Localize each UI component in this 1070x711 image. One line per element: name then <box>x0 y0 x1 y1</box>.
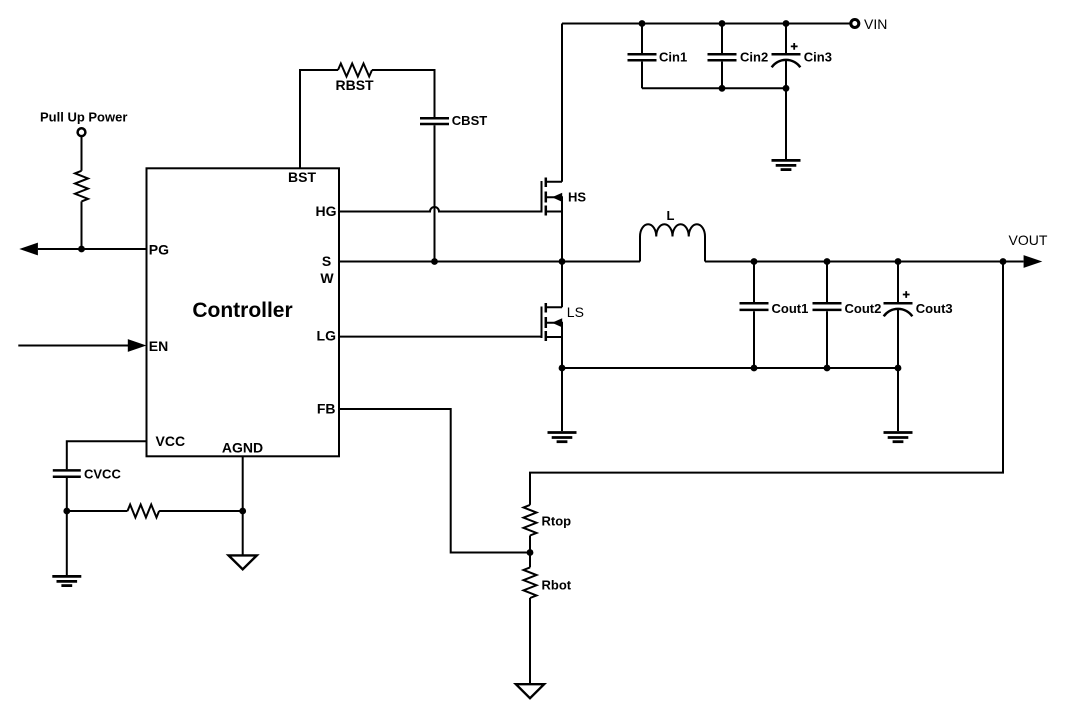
terminal pull-up power <box>78 128 86 136</box>
wire Cin bottom rail <box>642 87 786 89</box>
wire VCC <box>67 441 147 469</box>
svg-text:Cout2: Cout2 <box>845 301 882 316</box>
junction AGND <box>239 508 246 515</box>
inductor L <box>640 208 705 262</box>
junction CVCC <box>63 508 70 515</box>
svg-text:S: S <box>322 253 331 269</box>
terminal VIN <box>851 16 888 32</box>
ground Rbot triangle <box>516 684 544 698</box>
resistor VCC-AGND <box>128 505 160 518</box>
svg-text:Cout1: Cout1 <box>772 301 809 316</box>
wire Cout3 to ground <box>897 368 899 431</box>
wire node to resistor <box>67 510 128 512</box>
VOUT arrow <box>1024 255 1043 268</box>
svg-text:Pull Up Power: Pull Up Power <box>40 110 127 125</box>
wire terminal to pull-up resistor <box>81 136 83 171</box>
junction Cin rail Cin2 <box>719 85 726 92</box>
svg-text:CVCC: CVCC <box>84 466 121 481</box>
capacitor Cout3 polarized <box>884 262 953 369</box>
capacitor Cin3 polarized <box>772 24 832 89</box>
junction VIN Cin1 <box>639 20 646 27</box>
ground AGND triangle <box>229 555 257 569</box>
svg-text:LG: LG <box>317 328 337 344</box>
svg-text:L: L <box>667 208 675 223</box>
resistor Rtop <box>524 505 572 536</box>
svg-text:Cout3: Cout3 <box>916 301 953 316</box>
ground below LS <box>548 433 577 442</box>
junction Cout rail Cout1 <box>751 365 758 372</box>
wire AGND node to ground <box>242 511 244 555</box>
svg-text:EN: EN <box>149 338 168 354</box>
capacitor CBST <box>420 113 487 128</box>
ground below CVCC <box>52 576 81 585</box>
svg-text:CBST: CBST <box>452 113 487 128</box>
ground below Cin3 <box>772 160 801 169</box>
wire CVCC node to ground <box>66 511 68 575</box>
EN arrow <box>128 339 147 352</box>
wire CVCC to resistor node <box>66 478 68 511</box>
junction VIN Cin2 <box>719 20 726 27</box>
svg-text:Controller: Controller <box>192 299 292 322</box>
svg-text:HS: HS <box>568 189 586 204</box>
wire AGND pin <box>242 456 244 511</box>
wire PG <box>38 248 147 250</box>
wire S/W rail <box>339 261 640 263</box>
junction PG pull-up <box>78 246 85 253</box>
wire LG <box>339 336 542 338</box>
capacitor CVCC <box>53 466 122 481</box>
svg-text:Cin3: Cin3 <box>804 50 832 65</box>
svg-text:RBST: RBST <box>336 77 375 93</box>
svg-text:PG: PG <box>149 241 169 257</box>
svg-text:Rbot: Rbot <box>542 578 572 593</box>
controller U1 box <box>147 168 340 456</box>
resistor pull-up <box>75 171 88 202</box>
wire Rbot to ground <box>529 598 531 683</box>
wire LS source to ground <box>561 368 563 431</box>
junction VOUT feedback <box>1000 258 1007 265</box>
svg-text:AGND: AGND <box>222 439 263 455</box>
junction VOUT Cout2 <box>824 258 831 265</box>
junction VIN Cin3 <box>783 20 790 27</box>
junction S-CBST <box>431 258 438 265</box>
wire Cout bottom rail <box>562 367 898 369</box>
junction Cout rail Cout3 <box>895 365 902 372</box>
junction VOUT Cout3 <box>895 258 902 265</box>
wire CBST to S node <box>434 125 436 260</box>
wire Rtop to node <box>529 536 531 553</box>
wire resistor to AGND node <box>159 510 243 512</box>
svg-text:VOUT: VOUT <box>1009 232 1048 248</box>
svg-text:Rtop: Rtop <box>542 514 572 529</box>
svg-text:HG: HG <box>316 203 337 219</box>
svg-text:FB: FB <box>317 400 336 416</box>
svg-text:Cin2: Cin2 <box>740 50 768 65</box>
junction Cin rail Cin3 <box>783 85 790 92</box>
wire VIN rail <box>562 23 851 25</box>
transistor LS <box>542 262 584 369</box>
wire HG with hop over CBST wire <box>339 207 542 212</box>
wire VOUT to Rtop <box>530 262 1003 505</box>
PG arrow <box>19 243 38 256</box>
svg-text:Cin1: Cin1 <box>659 50 687 65</box>
wire RBST to CBST <box>372 70 435 117</box>
junction Cout rail Cout2 <box>824 365 831 372</box>
svg-text:VIN: VIN <box>864 16 887 32</box>
wire BST to RBST <box>300 70 338 168</box>
wire Cin3 to ground <box>785 88 787 159</box>
svg-text:W: W <box>320 270 334 286</box>
junction Cout rail LS <box>559 365 566 372</box>
transistor HS <box>542 24 587 262</box>
wire node to Rbot <box>529 553 531 568</box>
resistor RBST <box>336 64 375 93</box>
wire VOUT rail <box>705 261 1024 263</box>
svg-text:VCC: VCC <box>156 433 186 449</box>
capacitor Cout2 <box>813 262 882 369</box>
resistor Rbot <box>524 567 572 598</box>
svg-text:BST: BST <box>288 169 316 185</box>
capacitor Cin1 <box>628 24 688 89</box>
junction FB divider <box>527 549 534 556</box>
svg-text:LS: LS <box>567 304 584 320</box>
junction VOUT Cout1 <box>751 258 758 265</box>
ground below Cout3 <box>884 433 913 442</box>
capacitor Cout1 <box>740 262 809 369</box>
wire FB <box>339 409 527 553</box>
wire EN <box>18 345 128 347</box>
wire pull-up resistor to PG <box>81 201 83 249</box>
junction SW node <box>559 258 566 265</box>
capacitor Cin2 <box>708 24 769 89</box>
